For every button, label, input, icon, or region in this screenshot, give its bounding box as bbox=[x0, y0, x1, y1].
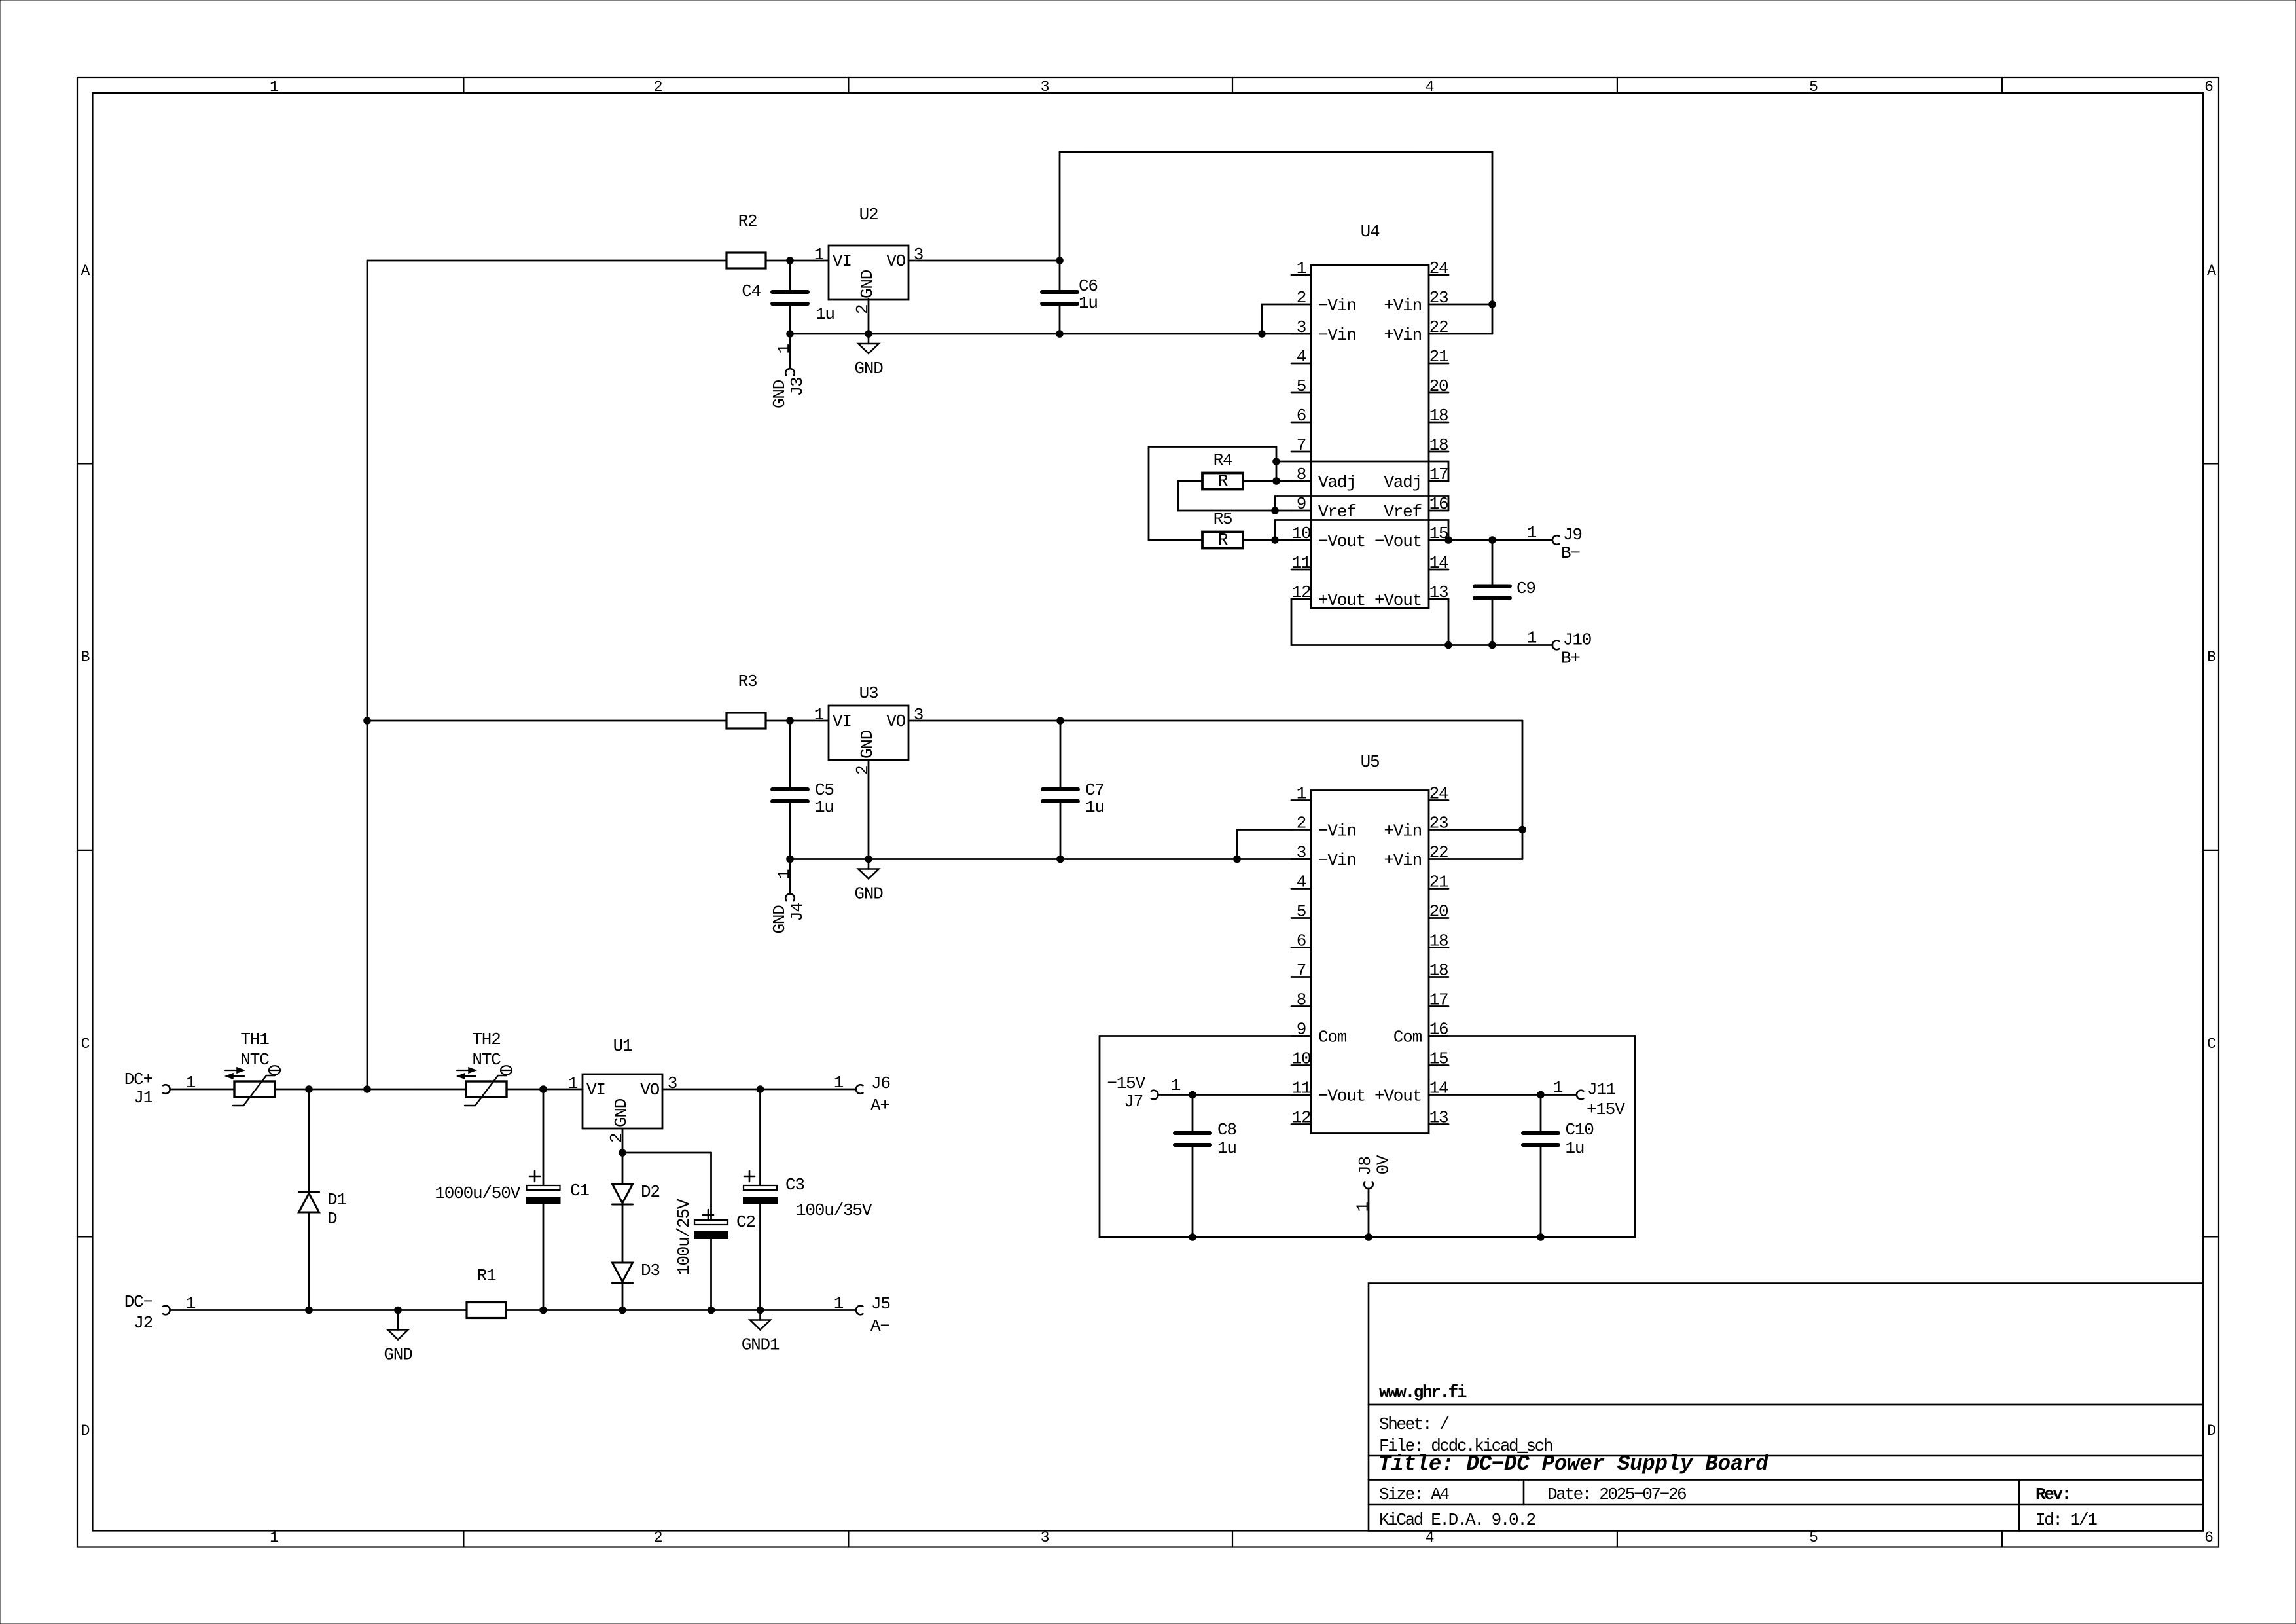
ground symbol GND1 bbox=[759, 1310, 761, 1320]
svg-text:6: 6 bbox=[1297, 931, 1306, 951]
wire U3 VO to C7 bbox=[908, 720, 1060, 722]
svg-text:24: 24 bbox=[1429, 784, 1448, 804]
connector J10 B+ bbox=[1552, 641, 1560, 650]
svg-text:R2: R2 bbox=[738, 211, 757, 231]
svg-text:2: 2 bbox=[853, 766, 872, 775]
svg-text:DC−: DC− bbox=[124, 1292, 153, 1312]
svg-text:6: 6 bbox=[1297, 406, 1306, 425]
svg-text:VO: VO bbox=[886, 251, 905, 271]
svg-text:R: R bbox=[1218, 471, 1228, 491]
svg-text:2: 2 bbox=[654, 1529, 662, 1546]
junction node D1 top bbox=[305, 1085, 313, 1093]
regulator U1 bbox=[583, 1074, 662, 1128]
wire U5 pin14 +Vout bbox=[1448, 1094, 1576, 1096]
capacitor C3 bbox=[759, 1089, 761, 1185]
svg-text:A−: A− bbox=[870, 1316, 889, 1336]
wire U2 pin2 GND bbox=[868, 299, 870, 334]
svg-text:20: 20 bbox=[1429, 376, 1448, 396]
svg-text:Vadj: Vadj bbox=[1384, 473, 1422, 492]
svg-text:U3: U3 bbox=[859, 683, 878, 703]
connector J3 GND bbox=[789, 334, 791, 368]
capacitor C5 bbox=[789, 721, 791, 789]
svg-text:Vadj: Vadj bbox=[1318, 473, 1356, 492]
svg-text:21: 21 bbox=[1429, 347, 1448, 367]
svg-text:GND1: GND1 bbox=[742, 1335, 780, 1355]
svg-text:1: 1 bbox=[814, 705, 824, 725]
capacitor C2 bbox=[694, 1220, 728, 1225]
diode D3 bbox=[613, 1263, 633, 1282]
svg-text:J9: J9 bbox=[1563, 525, 1582, 545]
wire Vadj pin17 link bbox=[1276, 461, 1448, 481]
svg-text:U2: U2 bbox=[859, 205, 878, 225]
wire J1 to TH1 bbox=[171, 1089, 235, 1091]
svg-text:18: 18 bbox=[1429, 435, 1448, 455]
junction node J8 bottom bbox=[1365, 1233, 1372, 1241]
svg-text:GND: GND bbox=[611, 1098, 631, 1127]
svg-text:1: 1 bbox=[1171, 1075, 1181, 1095]
svg-text:B+: B+ bbox=[1561, 649, 1580, 668]
svg-text:B: B bbox=[81, 649, 90, 666]
svg-text:100u/35V: 100u/35V bbox=[796, 1200, 872, 1220]
svg-text:GND: GND bbox=[857, 270, 877, 298]
svg-text:A: A bbox=[2207, 262, 2216, 280]
svg-text:3: 3 bbox=[1297, 317, 1306, 337]
capacitor C1 bbox=[543, 1089, 545, 1185]
junction node C5 bottom bbox=[786, 856, 794, 863]
svg-text:18: 18 bbox=[1429, 931, 1448, 951]
svg-text:3: 3 bbox=[668, 1074, 677, 1093]
connector J1 DC+ bbox=[163, 1085, 170, 1094]
connector J7 -15V bbox=[1151, 1091, 1158, 1100]
svg-text:2: 2 bbox=[853, 305, 872, 314]
title block outline bbox=[1369, 1284, 2203, 1531]
svg-text:GND: GND bbox=[770, 905, 789, 934]
svg-text:1u: 1u bbox=[815, 797, 834, 817]
svg-text:21: 21 bbox=[1429, 873, 1448, 892]
svg-text:C1: C1 bbox=[570, 1181, 589, 1200]
svg-text:+Vout: +Vout bbox=[1374, 1087, 1422, 1106]
frame column ticks bbox=[463, 77, 464, 93]
svg-text:Size: A4: Size: A4 bbox=[1379, 1485, 1449, 1504]
svg-text:22: 22 bbox=[1429, 317, 1448, 337]
junction node -Vout bbox=[1271, 536, 1279, 544]
svg-text:12: 12 bbox=[1292, 583, 1311, 602]
svg-text:R: R bbox=[1218, 530, 1228, 550]
svg-text:C4: C4 bbox=[742, 281, 761, 301]
capacitor C9 bbox=[1492, 540, 1494, 586]
svg-text:1: 1 bbox=[1553, 1078, 1563, 1098]
svg-text:5: 5 bbox=[1297, 376, 1306, 396]
junction node U4 pin23 bbox=[1488, 300, 1496, 308]
svg-text:Rev:: Rev: bbox=[2036, 1485, 2070, 1504]
wire R3 to U3 bbox=[766, 720, 829, 722]
svg-text:1: 1 bbox=[774, 344, 794, 354]
capacitor C10 bbox=[1540, 1095, 1542, 1134]
svg-text:1000u/50V: 1000u/50V bbox=[435, 1183, 520, 1203]
connector J6 A+ bbox=[856, 1085, 863, 1094]
frame row ticks bbox=[77, 463, 93, 464]
U4 left pins bbox=[1291, 274, 1311, 276]
svg-text:22: 22 bbox=[1429, 843, 1448, 863]
connector J5 A- bbox=[856, 1306, 863, 1315]
wire GND rail U2 bbox=[790, 333, 1311, 335]
junction node C2 bottom bbox=[708, 1307, 715, 1314]
svg-text:U5: U5 bbox=[1361, 752, 1380, 772]
thermistor TH2 bbox=[466, 1081, 507, 1097]
svg-text:Title: DC−DC Power Supply Boar: Title: DC−DC Power Supply Board bbox=[1378, 1452, 1769, 1476]
svg-text:1: 1 bbox=[774, 869, 794, 879]
svg-text:J3: J3 bbox=[787, 378, 807, 397]
title block divider lines bbox=[1369, 1404, 2203, 1406]
wire U1 pin2 GND bbox=[622, 1128, 624, 1153]
svg-text:1: 1 bbox=[1354, 1202, 1373, 1212]
wire TH1 to TH2 bbox=[275, 1089, 466, 1091]
svg-text:J10: J10 bbox=[1563, 630, 1591, 650]
capacitor C8 bbox=[1192, 1095, 1194, 1134]
svg-text:1: 1 bbox=[1297, 259, 1306, 278]
junction node C7 bottom bbox=[1056, 856, 1064, 863]
svg-text:TH2: TH2 bbox=[472, 1030, 500, 1049]
wire top rail to U4 bbox=[1060, 151, 1492, 153]
svg-text:0V: 0V bbox=[1374, 1155, 1393, 1174]
svg-text:C3: C3 bbox=[785, 1175, 804, 1195]
svg-text:C9: C9 bbox=[1516, 579, 1535, 598]
svg-text:18: 18 bbox=[1429, 961, 1448, 981]
svg-text:D: D bbox=[81, 1422, 90, 1439]
wire Vref pin16 link bbox=[1275, 496, 1448, 511]
wire C6 top rail vertical bbox=[1059, 152, 1061, 261]
svg-text:4: 4 bbox=[1297, 347, 1306, 367]
svg-text:3: 3 bbox=[1041, 79, 1049, 96]
svg-text:J8: J8 bbox=[1355, 1157, 1375, 1176]
junction node U1 gnd bbox=[619, 1149, 626, 1157]
wire +Vout loop pin12 bbox=[1291, 599, 1448, 645]
svg-text:2: 2 bbox=[607, 1134, 626, 1143]
svg-text:+Vin: +Vin bbox=[1384, 821, 1422, 841]
svg-text:20: 20 bbox=[1429, 902, 1448, 922]
resistor R4 bbox=[1178, 480, 1202, 482]
junction node C4 bottom bbox=[786, 330, 794, 338]
capacitor C7 bbox=[1060, 721, 1062, 789]
svg-text:−15V: −15V bbox=[1107, 1074, 1145, 1093]
junction node C6 top bbox=[1056, 257, 1064, 264]
capacitor C4 bbox=[789, 261, 791, 292]
junction node D1 bottom bbox=[305, 1307, 313, 1314]
svg-text:13: 13 bbox=[1429, 1108, 1448, 1128]
svg-text:KiCad E.D.A. 9.0.2: KiCad E.D.A. 9.0.2 bbox=[1379, 1510, 1535, 1530]
svg-text:4: 4 bbox=[1426, 79, 1434, 96]
svg-text:NTC: NTC bbox=[472, 1050, 501, 1070]
svg-text:1: 1 bbox=[834, 1073, 844, 1092]
svg-text:A: A bbox=[81, 262, 90, 280]
svg-text:3: 3 bbox=[914, 705, 923, 725]
svg-text:NTC: NTC bbox=[240, 1050, 269, 1070]
svg-text:5: 5 bbox=[1809, 79, 1818, 96]
svg-text:www.ghr.fi: www.ghr.fi bbox=[1379, 1382, 1467, 1402]
svg-text:+Vout: +Vout bbox=[1374, 590, 1422, 610]
svg-text:−Vin: −Vin bbox=[1318, 296, 1356, 316]
svg-text:1u: 1u bbox=[1566, 1138, 1585, 1158]
svg-text:4: 4 bbox=[1297, 873, 1306, 892]
svg-text:A+: A+ bbox=[870, 1096, 889, 1115]
svg-text:C10: C10 bbox=[1566, 1120, 1594, 1140]
svg-text:1u: 1u bbox=[1085, 797, 1104, 817]
connector J4 GND bbox=[789, 859, 791, 893]
svg-text:17: 17 bbox=[1429, 990, 1448, 1010]
svg-text:2: 2 bbox=[1297, 288, 1306, 308]
junction node DC+ rail bbox=[363, 1085, 371, 1093]
resistor R5 bbox=[1149, 539, 1202, 541]
svg-text:5: 5 bbox=[1297, 902, 1306, 922]
diode D2 bbox=[622, 1153, 624, 1184]
wire U3 pin2 GND bbox=[868, 761, 870, 859]
wire R5 left loop bbox=[1149, 447, 1276, 541]
svg-text:5: 5 bbox=[1809, 1529, 1818, 1546]
U5 left pins bbox=[1291, 799, 1311, 801]
svg-text:VI: VI bbox=[833, 712, 852, 731]
junction node C10 bottom bbox=[1537, 1233, 1545, 1241]
svg-text:10: 10 bbox=[1292, 1049, 1311, 1069]
regulator U2 bbox=[829, 245, 908, 300]
junction node C3 top bbox=[757, 1085, 764, 1093]
junction node C1 top bbox=[539, 1085, 547, 1093]
svg-text:D1: D1 bbox=[327, 1190, 346, 1210]
svg-text:J7: J7 bbox=[1124, 1092, 1143, 1111]
svg-text:1: 1 bbox=[568, 1074, 578, 1093]
wire R2 to U2 bbox=[766, 260, 829, 262]
svg-text:C: C bbox=[2207, 1036, 2215, 1053]
svg-text:R1: R1 bbox=[477, 1266, 496, 1286]
svg-text:D3: D3 bbox=[641, 1261, 660, 1280]
capacitor C6 bbox=[1059, 261, 1061, 292]
svg-text:9: 9 bbox=[1297, 494, 1306, 514]
junction node C5 top bbox=[786, 717, 794, 725]
svg-text:16: 16 bbox=[1429, 494, 1448, 514]
svg-text:1: 1 bbox=[1297, 784, 1306, 804]
svg-text:Date: 2025−07−26: Date: 2025−07−26 bbox=[1547, 1485, 1686, 1504]
svg-text:8: 8 bbox=[1297, 465, 1306, 484]
svg-text:2: 2 bbox=[654, 79, 662, 96]
svg-text:14: 14 bbox=[1429, 553, 1448, 573]
svg-text:1: 1 bbox=[1527, 523, 1537, 543]
wire J7 to U5 pin11 bbox=[1158, 1094, 1311, 1096]
junction node R3 branch bbox=[363, 717, 371, 725]
junction node GND tap bbox=[394, 1307, 402, 1314]
svg-text:GND: GND bbox=[854, 884, 883, 904]
thermistor TH1 bbox=[234, 1081, 275, 1097]
U5 right pins bbox=[1429, 799, 1448, 801]
svg-text:D: D bbox=[2207, 1422, 2215, 1439]
ground symbol GND U3 bbox=[868, 859, 870, 869]
svg-text:B−: B− bbox=[1561, 543, 1580, 563]
junction node U3 gnd bbox=[865, 856, 872, 863]
junction node pin15 bbox=[1444, 536, 1452, 544]
svg-text:6: 6 bbox=[2204, 79, 2213, 96]
svg-text:U1: U1 bbox=[613, 1036, 632, 1056]
ground symbol GND U2 bbox=[868, 334, 870, 344]
junction node D3 bottom bbox=[619, 1307, 626, 1314]
svg-text:11: 11 bbox=[1292, 553, 1311, 573]
svg-text:Com: Com bbox=[1393, 1028, 1422, 1047]
wire U5 pin22 +Vin bbox=[1448, 858, 1522, 860]
wire TH2 to U1 bbox=[507, 1089, 583, 1091]
svg-text:7: 7 bbox=[1297, 435, 1306, 455]
svg-text:D: D bbox=[327, 1209, 337, 1229]
svg-text:Com: Com bbox=[1318, 1028, 1347, 1047]
wire J2 to R1 bbox=[171, 1309, 467, 1311]
svg-text:4: 4 bbox=[1426, 1529, 1434, 1546]
wire R4 left to Vref bbox=[1178, 481, 1291, 511]
U4 right pins bbox=[1429, 274, 1448, 276]
wire U4 pin2 -Vin loop bbox=[1262, 304, 1291, 334]
junction node Vadj a bbox=[1272, 458, 1280, 465]
junction node C7 top bbox=[1056, 717, 1064, 725]
svg-text:100u/25V: 100u/25V bbox=[674, 1199, 694, 1275]
svg-text:R4: R4 bbox=[1213, 450, 1232, 470]
svg-text:J6: J6 bbox=[871, 1074, 890, 1093]
svg-text:J1: J1 bbox=[134, 1088, 152, 1108]
svg-text:−Vin: −Vin bbox=[1318, 821, 1356, 841]
wire Com right bbox=[1429, 1035, 1635, 1037]
wire Com left bbox=[1100, 1035, 1311, 1037]
svg-text:10: 10 bbox=[1292, 524, 1311, 543]
svg-text:Sheet: /: Sheet: / bbox=[1379, 1415, 1449, 1434]
wire U3 VO to U5 +Vin bbox=[1060, 720, 1522, 722]
ground symbol GND bbox=[397, 1310, 399, 1330]
junction node C4 top bbox=[786, 257, 794, 264]
connector J9 B- bbox=[1552, 535, 1560, 545]
svg-text:C8: C8 bbox=[1217, 1120, 1236, 1140]
svg-text:VO: VO bbox=[640, 1080, 659, 1100]
svg-text:1: 1 bbox=[814, 245, 824, 264]
svg-text:3: 3 bbox=[914, 245, 923, 264]
svg-text:23: 23 bbox=[1429, 288, 1448, 308]
wire U2 VO to C6 bbox=[908, 260, 1060, 262]
svg-text:17: 17 bbox=[1429, 465, 1448, 484]
svg-text:Vref: Vref bbox=[1384, 502, 1422, 522]
wire U4 pin23 +Vin bbox=[1448, 304, 1492, 306]
wire 0V box left bbox=[1099, 1036, 1101, 1238]
junction node pin13 bbox=[1444, 641, 1452, 649]
svg-text:1u: 1u bbox=[816, 304, 834, 324]
svg-text:24: 24 bbox=[1429, 259, 1448, 278]
svg-text:1: 1 bbox=[270, 1529, 278, 1546]
svg-text:−Vout: −Vout bbox=[1318, 1087, 1365, 1106]
junction node C1 bottom bbox=[539, 1307, 547, 1314]
wire pin13 down bbox=[1448, 599, 1450, 645]
svg-text:GND: GND bbox=[384, 1345, 412, 1365]
diode D1 bbox=[308, 1089, 310, 1192]
svg-text:VO: VO bbox=[886, 712, 905, 731]
svg-text:3: 3 bbox=[1297, 843, 1306, 863]
DC-DC converter U5 bbox=[1311, 791, 1429, 1134]
junction node C3 bottom bbox=[757, 1307, 764, 1314]
junction node Vref bbox=[1271, 507, 1279, 514]
DC-DC converter U4 bbox=[1311, 265, 1429, 608]
svg-text:GND: GND bbox=[857, 730, 877, 759]
svg-text:GND: GND bbox=[854, 359, 883, 378]
connector J8 0V bbox=[1364, 1182, 1373, 1189]
svg-text:−Vin: −Vin bbox=[1318, 851, 1356, 871]
wire U5 pin23 +Vin bbox=[1448, 829, 1522, 831]
junction node C10 top bbox=[1537, 1091, 1545, 1099]
svg-text:B: B bbox=[2207, 649, 2215, 666]
svg-text:DC+: DC+ bbox=[124, 1070, 153, 1089]
svg-text:J5: J5 bbox=[871, 1294, 890, 1314]
junction node U2 gnd bbox=[865, 330, 872, 338]
svg-text:TH1: TH1 bbox=[240, 1030, 269, 1049]
svg-text:−Vout: −Vout bbox=[1318, 532, 1365, 551]
svg-text:R5: R5 bbox=[1213, 509, 1232, 529]
junction node C6 bottom bbox=[1056, 330, 1064, 338]
svg-text:+15V: +15V bbox=[1587, 1100, 1625, 1119]
svg-text:D2: D2 bbox=[641, 1182, 660, 1202]
svg-text:1: 1 bbox=[834, 1293, 844, 1313]
regulator U3 bbox=[829, 706, 908, 760]
junction node C8 top bbox=[1189, 1091, 1196, 1099]
svg-text:+Vout: +Vout bbox=[1318, 590, 1365, 610]
svg-text:+Vin: +Vin bbox=[1384, 851, 1422, 871]
svg-text:23: 23 bbox=[1429, 814, 1448, 833]
svg-text:J2: J2 bbox=[134, 1313, 152, 1333]
junction node Vadj b bbox=[1272, 477, 1280, 485]
svg-text:Vref: Vref bbox=[1318, 502, 1356, 522]
svg-text:C2: C2 bbox=[736, 1212, 755, 1232]
wire 0V box right bbox=[1634, 1036, 1636, 1238]
wire DC+ to R2 bbox=[367, 260, 726, 262]
svg-text:7: 7 bbox=[1297, 961, 1306, 981]
wire B+ output bbox=[1448, 644, 1552, 646]
junction node C8 bottom bbox=[1189, 1233, 1196, 1241]
svg-text:1u: 1u bbox=[1217, 1138, 1236, 1158]
resistor R2 bbox=[726, 253, 766, 268]
wire R1 to J5 bbox=[506, 1309, 855, 1311]
svg-text:2: 2 bbox=[1297, 814, 1306, 833]
wire B- output bbox=[1448, 539, 1552, 541]
wire 0V box bottom bbox=[1100, 1236, 1635, 1238]
junction node C9 bottom bbox=[1488, 641, 1496, 649]
svg-text:−Vin: −Vin bbox=[1318, 325, 1356, 345]
svg-text:13: 13 bbox=[1429, 583, 1448, 602]
junction node U4 -Vin bbox=[1258, 330, 1266, 338]
svg-text:1u: 1u bbox=[1079, 293, 1098, 313]
svg-text:R3: R3 bbox=[738, 672, 757, 691]
svg-text:18: 18 bbox=[1429, 406, 1448, 425]
svg-text:−Vout: −Vout bbox=[1374, 532, 1422, 551]
junction node C9 top bbox=[1488, 536, 1496, 544]
svg-text:14: 14 bbox=[1429, 1079, 1448, 1098]
svg-text:1: 1 bbox=[1527, 628, 1537, 648]
svg-text:VI: VI bbox=[586, 1080, 605, 1100]
wire DC+ to R3 bbox=[367, 720, 726, 722]
resistor R3 bbox=[726, 713, 766, 729]
svg-text:6: 6 bbox=[2204, 1529, 2213, 1546]
wire -Vout pin15 link bbox=[1275, 520, 1448, 541]
wire U4 pin22 +Vin bbox=[1448, 333, 1492, 335]
svg-text:1: 1 bbox=[270, 79, 278, 96]
connector J11 +15V bbox=[1577, 1091, 1584, 1100]
svg-text:Id: 1/1: Id: 1/1 bbox=[2036, 1510, 2097, 1530]
wire U1 gnd to C2 bbox=[622, 1152, 711, 1154]
wire GND rail U3 bbox=[790, 858, 1311, 860]
svg-text:+Vin: +Vin bbox=[1384, 296, 1422, 316]
wire U1 VO to J6 bbox=[662, 1089, 855, 1091]
resistor R1 bbox=[467, 1303, 506, 1318]
svg-text:12: 12 bbox=[1292, 1108, 1311, 1128]
svg-text:8: 8 bbox=[1297, 990, 1306, 1010]
junction node U5 pin23 bbox=[1518, 826, 1526, 834]
svg-text:C: C bbox=[81, 1036, 90, 1053]
